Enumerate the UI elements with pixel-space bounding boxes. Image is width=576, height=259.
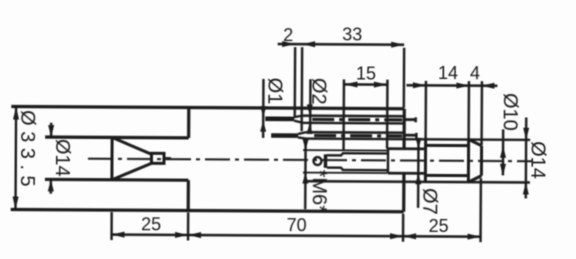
bottom row: 25 / 70 / 25	[112, 235, 481, 237]
svg-text:14: 14	[438, 63, 458, 83]
Ø33.5	[14, 107, 17, 210]
15 row	[344, 83, 386, 86]
arrowheads	[12, 39, 529, 239]
bore bottom	[45, 178, 188, 182]
Ø10 (inside)	[500, 146, 506, 158]
center line	[88, 159, 532, 162]
part outline: main body	[11, 106, 405, 211]
14/4	[413, 82, 426, 88]
svg-text:33: 33	[342, 24, 362, 44]
cone / center assembly	[112, 137, 171, 180]
Ø14 right (outside)	[523, 128, 529, 140]
Ø2	[309, 79, 312, 131]
Ø2	[307, 104, 313, 115]
Ø7	[415, 138, 421, 149]
Ø14 left (outside)	[48, 125, 54, 137]
svg-text:70: 70	[287, 215, 307, 235]
svg-text:*M6*: *M6*	[308, 170, 330, 214]
svg-text:25: 25	[141, 214, 161, 234]
svg-text:2: 2	[283, 25, 293, 45]
14 / 4 row	[406, 84, 497, 87]
bottom row	[112, 232, 125, 238]
svg-text:4: 4	[470, 63, 480, 83]
assembly 2 (lower drill)	[271, 132, 416, 139]
Ø7 rod	[387, 149, 390, 173]
Ø14 nut with Ø10 bore and chamfer	[425, 139, 481, 182]
svg-text:Ø10: Ø10	[499, 93, 521, 131]
right face	[402, 109, 405, 149]
svg-text:Ø2: Ø2	[307, 78, 329, 105]
svg-text:Ø1: Ø1	[263, 78, 285, 105]
assembly 1 (upper drill)	[265, 115, 416, 123]
Ø14 left	[50, 123, 52, 137]
M6	[303, 139, 309, 150]
bottom edge	[11, 209, 404, 211]
bore end verticals	[187, 108, 190, 138]
top row: 2 / 33	[278, 43, 404, 46]
Ø14 right	[525, 117, 528, 198]
top row	[282, 41, 295, 47]
bushing outline / right Ø14 lines	[306, 139, 530, 183]
Ø10	[502, 129, 505, 175]
Ø1	[262, 79, 265, 138]
Ø1	[260, 106, 266, 117]
svg-text:Ø33.5: Ø33.5	[16, 110, 38, 192]
top edge	[11, 106, 404, 108]
Ø33.5	[13, 106, 19, 119]
Ø7	[417, 142, 420, 208]
bore top	[45, 135, 188, 139]
svg-text:Ø14: Ø14	[51, 139, 73, 177]
svg-text:15: 15	[356, 63, 376, 83]
svg-text:25: 25	[429, 216, 449, 236]
15	[344, 81, 357, 87]
svg-text:Ø7: Ø7	[418, 188, 440, 215]
svg-text:Ø14: Ø14	[526, 141, 548, 179]
M6 screw assembly	[303, 148, 426, 173]
M6	[304, 141, 307, 209]
